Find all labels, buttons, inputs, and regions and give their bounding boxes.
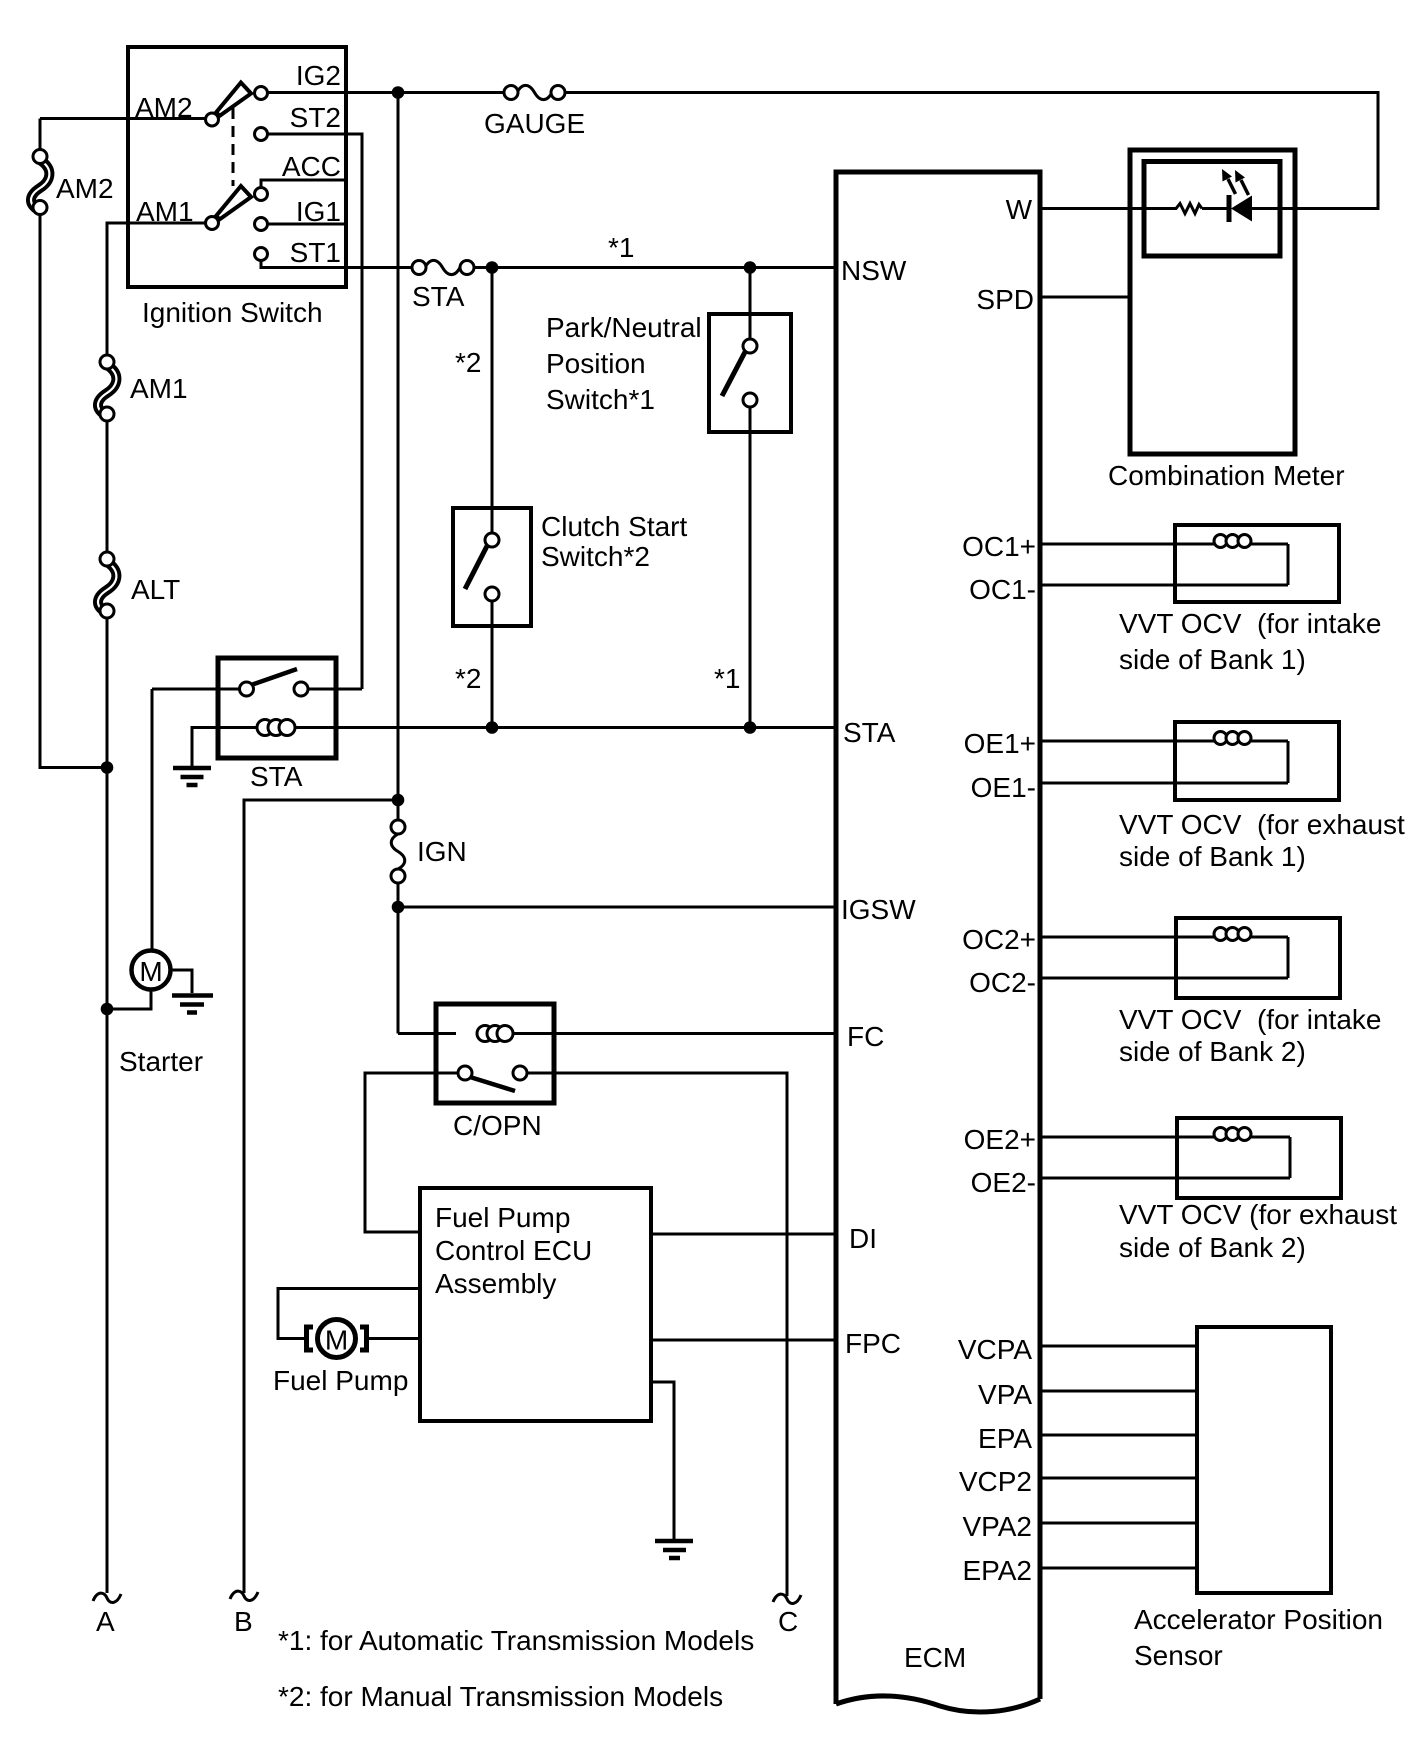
svg-text:Assembly: Assembly bbox=[435, 1268, 556, 1299]
wire ECU ground pin bbox=[651, 1382, 674, 1539]
svg-text:B: B bbox=[234, 1606, 253, 1637]
svg-text:STA: STA bbox=[250, 761, 303, 792]
wire ALT link down to terminal A bbox=[106, 618, 109, 1593]
wire relay coil to ground bbox=[192, 728, 218, 767]
contact ACC bbox=[255, 188, 268, 201]
node junction IGSW bbox=[392, 901, 405, 914]
svg-text:IGN: IGN bbox=[417, 836, 467, 867]
park/neutral position switch bbox=[546, 268, 791, 728]
wire VCPA bbox=[1040, 1345, 1197, 1348]
node junction clutch-STA bbox=[486, 721, 499, 734]
svg-text:side of Bank 2): side of Bank 2) bbox=[1119, 1232, 1306, 1263]
svg-text:EPA2: EPA2 bbox=[962, 1555, 1032, 1586]
svg-text:DI: DI bbox=[849, 1223, 877, 1254]
svg-text:EPA: EPA bbox=[978, 1423, 1032, 1454]
wire AM2 vertical to fusible link bbox=[39, 119, 42, 151]
svg-text:VPA2: VPA2 bbox=[962, 1511, 1032, 1542]
svg-text:IG2: IG2 bbox=[296, 60, 341, 91]
accelerator position sensor bbox=[1134, 1327, 1383, 1671]
wire resistor to LED bbox=[1202, 207, 1229, 210]
svg-text:Accelerator Position: Accelerator Position bbox=[1134, 1604, 1383, 1635]
contact ST1 bbox=[255, 248, 268, 261]
wire IGSW to ECM bbox=[398, 906, 836, 909]
wire IG1 stub bbox=[268, 223, 347, 226]
starter motor M1 bbox=[107, 951, 203, 1078]
wire IG2 vertical main feed bbox=[397, 93, 400, 821]
svg-text:OE1+: OE1+ bbox=[964, 728, 1036, 759]
wire relay switch to starter bbox=[151, 689, 154, 951]
node junction starter tap bbox=[101, 1003, 114, 1016]
svg-text:OC2+: OC2+ bbox=[962, 924, 1036, 955]
fuse STA bbox=[412, 260, 474, 312]
node junction B branch bbox=[392, 794, 405, 807]
svg-text:NSW: NSW bbox=[841, 255, 907, 286]
svg-text:ST2: ST2 bbox=[290, 102, 341, 133]
svg-text:VCPA: VCPA bbox=[958, 1334, 1032, 1365]
contact AM2 bbox=[206, 113, 219, 126]
svg-text:*1: *1 bbox=[608, 232, 634, 263]
svg-text:VCP2: VCP2 bbox=[959, 1466, 1032, 1497]
svg-text:VVT OCV (for exhaust: VVT OCV (for exhaust bbox=[1119, 809, 1405, 840]
terminal B bbox=[230, 1591, 258, 1637]
VVT OCV solenoid (exhaust bank 1) bbox=[1040, 722, 1405, 872]
svg-text:Fuel Pump: Fuel Pump bbox=[273, 1365, 408, 1396]
svg-text:OE1-: OE1- bbox=[971, 772, 1036, 803]
svg-text:*1: *1 bbox=[714, 663, 740, 694]
ground (starter) bbox=[172, 996, 213, 1013]
node junction IG2 bbox=[392, 86, 405, 99]
svg-text:ST1: ST1 bbox=[290, 237, 341, 268]
svg-text:AM2: AM2 bbox=[56, 173, 114, 204]
svg-text:*1: for Automatic Transmission: *1: for Automatic Transmission Models bbox=[278, 1625, 754, 1656]
svg-text:OE2-: OE2- bbox=[971, 1167, 1036, 1198]
fusible link AM2 bbox=[31, 150, 114, 215]
wire fuel pump to ECU right terminal bbox=[367, 1337, 421, 1340]
terminal C bbox=[773, 1594, 801, 1637]
wire ACC stub bbox=[261, 180, 346, 188]
svg-text:W: W bbox=[1006, 194, 1033, 225]
wire ECU DI to ECM bbox=[651, 1233, 836, 1236]
svg-text:AM1: AM1 bbox=[136, 196, 194, 227]
wire EPA2 bbox=[1040, 1567, 1197, 1570]
svg-text:ECM: ECM bbox=[904, 1642, 966, 1673]
VVT OCV solenoid (intake bank 2) bbox=[1040, 918, 1381, 1067]
VVT OCV solenoid (intake bank 1) bbox=[1040, 525, 1381, 675]
svg-text:OE2+: OE2+ bbox=[964, 1124, 1036, 1155]
wire to terminal B bbox=[244, 800, 398, 1593]
svg-text:M: M bbox=[139, 956, 162, 987]
fuse GAUGE bbox=[484, 85, 585, 139]
svg-text:Control ECU: Control ECU bbox=[435, 1235, 592, 1266]
wire VPA2 bbox=[1040, 1522, 1197, 1525]
svg-text:ACC: ACC bbox=[282, 151, 341, 182]
wire ST2 down to STA relay bbox=[268, 134, 363, 689]
svg-text:side of Bank 1): side of Bank 1) bbox=[1119, 644, 1306, 675]
svg-text:side of Bank 2): side of Bank 2) bbox=[1119, 1036, 1306, 1067]
contact IG2 bbox=[255, 87, 268, 100]
ground (fuel pump ECU) bbox=[655, 1541, 693, 1558]
svg-text:FC: FC bbox=[847, 1021, 884, 1052]
wire ST1 to fuse STA bbox=[261, 261, 412, 268]
contact IG1 bbox=[255, 218, 268, 231]
clutch start switch bbox=[453, 268, 687, 728]
svg-text:IG1: IG1 bbox=[296, 196, 341, 227]
LED D1 (indicator lamp) bbox=[1222, 169, 1297, 222]
svg-text:ALT: ALT bbox=[131, 574, 180, 605]
relay STA bbox=[152, 658, 362, 792]
fusible link ALT bbox=[98, 552, 180, 618]
node junction park-STA bbox=[744, 721, 757, 734]
wire W pin bbox=[1040, 207, 1176, 210]
node junction clutch branch bbox=[486, 261, 499, 274]
svg-text:Starter: Starter bbox=[119, 1046, 203, 1077]
svg-text:VVT OCV (for intake: VVT OCV (for intake bbox=[1119, 608, 1381, 639]
wire IG2 to gauge row bbox=[268, 91, 507, 94]
wire STA row to ECM STA pin bbox=[336, 726, 836, 729]
wire STA fuse to ECM NSW pin bbox=[474, 266, 836, 269]
dashed gang line between levers bbox=[232, 108, 235, 186]
wire C/OPN switch to terminal C bbox=[527, 1073, 787, 1596]
svg-text:Fuel Pump: Fuel Pump bbox=[435, 1202, 570, 1233]
fuel pump control ECU assembly bbox=[420, 1188, 651, 1421]
svg-text:*2: for Manual Transmission Mo: *2: for Manual Transmission Models bbox=[278, 1681, 723, 1712]
switch lever AM1-ACC bbox=[216, 186, 251, 219]
ECM box bbox=[836, 172, 1040, 1712]
svg-text:Park/Neutral: Park/Neutral bbox=[546, 312, 702, 343]
svg-text:VVT OCV (for exhaust: VVT OCV (for exhaust bbox=[1119, 1199, 1397, 1230]
ground (STA relay) bbox=[173, 768, 211, 785]
svg-text:Sensor: Sensor bbox=[1134, 1640, 1223, 1671]
fuse IGN bbox=[391, 820, 467, 883]
svg-text:*2: *2 bbox=[455, 663, 481, 694]
svg-text:OC2-: OC2- bbox=[969, 967, 1036, 998]
wire gauge row to top right corner bbox=[565, 93, 1378, 209]
wire VCP2 bbox=[1040, 1477, 1197, 1480]
svg-text:C/OPN: C/OPN bbox=[453, 1110, 542, 1141]
svg-text:IGSW: IGSW bbox=[841, 894, 916, 925]
svg-text:OC1+: OC1+ bbox=[962, 531, 1036, 562]
terminal A bbox=[93, 1593, 121, 1637]
contact ST2 bbox=[255, 128, 268, 141]
ignition switch box bbox=[128, 47, 346, 328]
svg-text:AM1: AM1 bbox=[130, 373, 188, 404]
svg-text:STA: STA bbox=[843, 717, 896, 748]
svg-text:*2: *2 bbox=[455, 347, 481, 378]
svg-text:M: M bbox=[325, 1325, 348, 1356]
VVT OCV solenoid (exhaust bank 2) bbox=[1040, 1118, 1397, 1263]
combination meter bbox=[1108, 150, 1345, 491]
node junction at x107 y767 bbox=[101, 761, 114, 774]
svg-text:VVT OCV (for intake: VVT OCV (for intake bbox=[1119, 1004, 1381, 1035]
contact AM1 bbox=[206, 217, 219, 230]
svg-text:VPA: VPA bbox=[978, 1379, 1032, 1410]
wire VPA bbox=[1040, 1390, 1197, 1393]
svg-text:side of Bank 1): side of Bank 1) bbox=[1119, 841, 1306, 872]
svg-text:C: C bbox=[778, 1606, 798, 1637]
svg-text:OC1-: OC1- bbox=[969, 574, 1036, 605]
wire AM2 feed bbox=[40, 117, 206, 120]
wire EPA bbox=[1040, 1434, 1197, 1437]
wire IGN feed into C/OPN coil bbox=[398, 1032, 456, 1035]
relay C/OPN bbox=[436, 1004, 836, 1141]
svg-text:SPD: SPD bbox=[976, 284, 1034, 315]
svg-text:Position: Position bbox=[546, 348, 646, 379]
wire AM1 link to ALT link bbox=[106, 421, 109, 553]
wire C/OPN switch to fuel pump ECU bbox=[365, 1073, 458, 1232]
switch lever AM2-IG2 bbox=[216, 83, 251, 116]
svg-text:Clutch Start: Clutch Start bbox=[541, 511, 687, 542]
wire ECU to fuel pump upper bbox=[278, 1289, 420, 1339]
svg-text:Switch*2: Switch*2 bbox=[541, 541, 650, 572]
svg-text:Ignition Switch: Ignition Switch bbox=[142, 297, 323, 328]
wire ECU FPC to ECM bbox=[651, 1339, 836, 1342]
svg-text:FPC: FPC bbox=[845, 1328, 901, 1359]
svg-text:Combination Meter: Combination Meter bbox=[1108, 460, 1345, 491]
svg-text:STA: STA bbox=[412, 281, 465, 312]
fuel pump motor M2 bbox=[273, 1320, 408, 1397]
wire IGN fuse to IGSW junction bbox=[397, 883, 400, 1034]
node junction park/neutral branch bbox=[744, 261, 757, 274]
svg-text:AM2: AM2 bbox=[135, 92, 193, 123]
resistor R (meter) bbox=[1174, 204, 1202, 214]
svg-text:A: A bbox=[96, 1606, 115, 1637]
wire AM1 feed bbox=[107, 223, 206, 355]
wire from AM2 link down to junction row bbox=[40, 215, 107, 768]
svg-text:GAUGE: GAUGE bbox=[484, 108, 585, 139]
fusible link AM1 bbox=[98, 355, 188, 421]
wire SPD pin bbox=[1040, 296, 1130, 299]
svg-text:Switch*1: Switch*1 bbox=[546, 384, 655, 415]
